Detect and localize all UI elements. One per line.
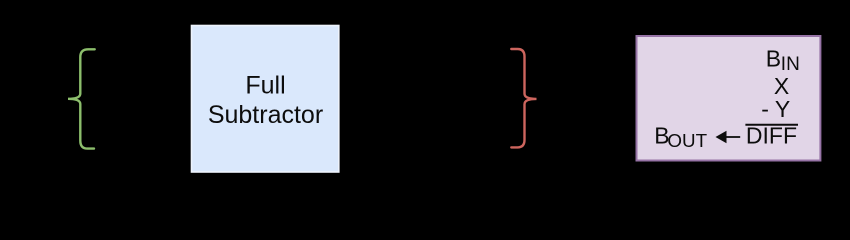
left brace (green, inputs) bbox=[68, 49, 95, 148]
overline over DIFF bbox=[745, 124, 798, 126]
svg-text:Subtractor: Subtractor bbox=[208, 101, 323, 129]
svg-text:- Y: - Y bbox=[761, 96, 790, 122]
svg-text:Full: Full bbox=[245, 72, 285, 100]
arrow left bbox=[716, 131, 727, 143]
operation box (purple) bbox=[637, 36, 821, 161]
svg-text:X: X bbox=[774, 73, 789, 99]
right brace (red, outputs) bbox=[511, 49, 536, 147]
svg-text:DIFF: DIFF bbox=[746, 123, 797, 149]
full subtractor box (blue) bbox=[192, 26, 339, 173]
